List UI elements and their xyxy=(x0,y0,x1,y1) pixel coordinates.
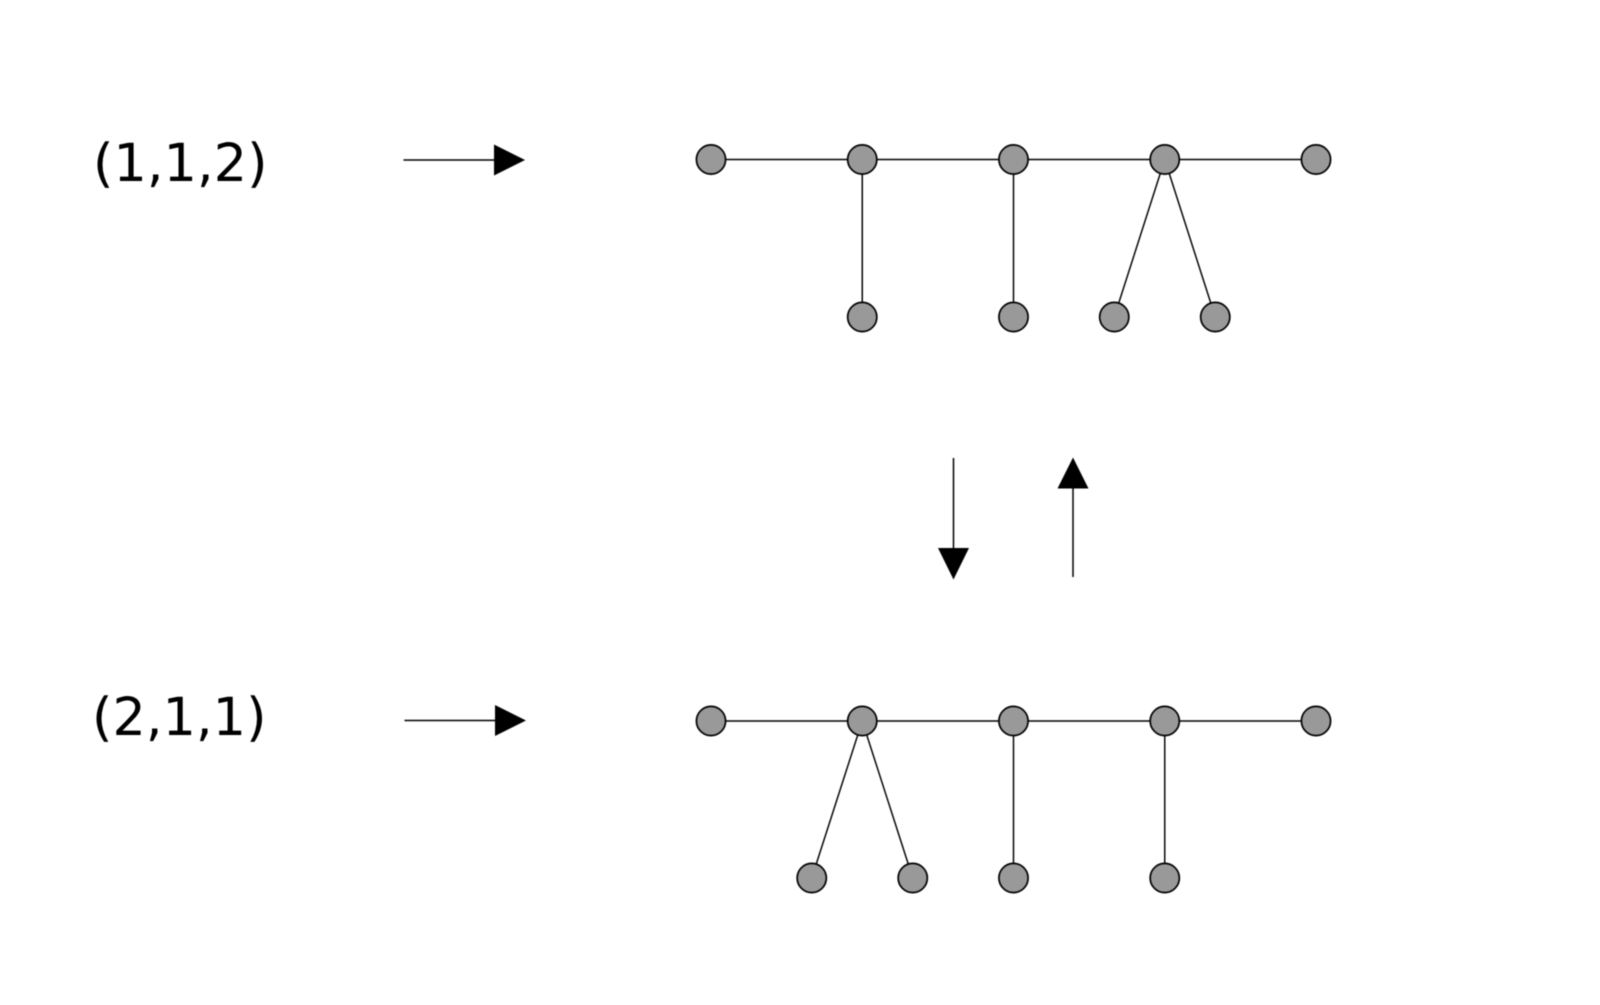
node A4a xyxy=(1100,302,1129,331)
wire spine B3-B4 xyxy=(1014,720,1165,722)
wire spine B1-B2 xyxy=(711,720,862,722)
node B5 xyxy=(1301,706,1330,735)
node A5 xyxy=(1301,145,1330,174)
node A3 xyxy=(999,145,1028,174)
node B4 xyxy=(1150,706,1179,735)
node A2a xyxy=(848,302,877,331)
node B1 xyxy=(696,706,725,735)
label (1,1,2) xyxy=(98,141,264,188)
wire pendant B2-B2b xyxy=(862,721,913,878)
node A1 xyxy=(696,145,725,174)
wire pendant A2-A2a xyxy=(861,160,863,318)
wire pendant A4-A4a xyxy=(1114,160,1165,318)
label (2,1,1) xyxy=(97,695,263,742)
arrow B shaft xyxy=(405,720,498,722)
node B4a xyxy=(1150,863,1179,892)
wire pendant B4-B4a xyxy=(1164,721,1166,878)
wire pendant B2-B2a xyxy=(812,721,863,878)
node B3 xyxy=(999,706,1028,735)
arrow A head xyxy=(494,145,525,176)
wire spine A4-A5 xyxy=(1165,159,1316,161)
arrow A shaft xyxy=(404,159,497,161)
arrow down head xyxy=(938,548,969,580)
wire pendant A3-A3a xyxy=(1013,160,1015,318)
wire spine B4-B5 xyxy=(1165,720,1316,722)
node B2b xyxy=(898,863,927,892)
node A4b xyxy=(1201,302,1230,331)
node B2 xyxy=(848,706,877,735)
node A3a xyxy=(999,302,1028,331)
node B3a xyxy=(999,863,1028,892)
arrow up shaft xyxy=(1072,487,1074,578)
node B2a xyxy=(797,863,826,892)
arrow up head xyxy=(1058,458,1089,489)
wire spine A2-A3 xyxy=(862,159,1013,161)
wire pendant B3-B3a xyxy=(1013,721,1015,878)
arrow down shaft xyxy=(953,458,955,550)
wire spine A3-A4 xyxy=(1014,159,1165,161)
wire spine A1-A2 xyxy=(711,159,862,161)
wire pendant A4-A4b xyxy=(1165,160,1216,318)
wire spine B2-B3 xyxy=(862,720,1013,722)
node A4 xyxy=(1150,145,1179,174)
node A2 xyxy=(848,145,877,174)
arrow B head xyxy=(495,705,526,736)
